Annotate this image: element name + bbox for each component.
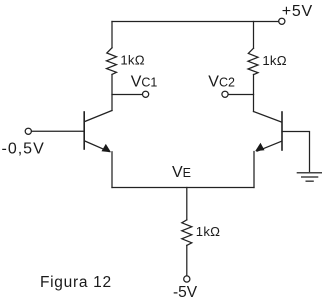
transistor Q1 base bar — [83, 112, 85, 149]
node VC1 terminal circle — [143, 91, 149, 97]
resistor R1 1k (left collector) — [107, 48, 117, 75]
svg-text:Figura 12: Figura 12 — [40, 274, 112, 291]
svg-text:VE: VE — [172, 164, 191, 181]
svg-text:+5V: +5V — [282, 3, 313, 20]
transistor Q2 collector lead — [254, 112, 282, 123]
transistor Q2 emitter lead — [257, 141, 281, 151]
wire VE node to RE — [186, 188, 188, 220]
wire right collector node — [253, 75, 255, 112]
wire VC2 tap — [228, 94, 253, 96]
wire VC1 tap — [112, 94, 142, 96]
wire Q2 emitter down to VE rail — [253, 152, 255, 188]
wire right collector drop from rail — [253, 22, 255, 49]
svg-text:-5V: -5V — [173, 284, 198, 301]
svg-text:VC1: VC1 — [131, 74, 158, 91]
wire left collector drop from rail — [111, 22, 113, 48]
node VC2 terminal circle — [222, 91, 228, 97]
transistor Q2 emitter arrowhead — [255, 143, 264, 151]
resistor R2 1k (right collector) — [248, 48, 258, 74]
wire RE to -5V terminal — [186, 245, 188, 275]
wire top rail +5V — [112, 21, 279, 23]
resistor RE 1k (emitter) — [182, 220, 192, 246]
power terminal +5V circle — [279, 18, 285, 24]
node -5V terminal circle — [184, 276, 190, 282]
transistor Q1 emitter arrowhead — [102, 144, 112, 152]
svg-text:VC2: VC2 — [208, 74, 235, 91]
transistor Q2 base bar — [281, 112, 283, 150]
svg-text:1kΩ: 1kΩ — [262, 53, 286, 68]
transistor Q1 collector lead — [85, 111, 112, 122]
svg-text:-0,5V: -0,5V — [2, 141, 45, 158]
wire left collector node — [111, 75, 113, 111]
wire input to Q1 base — [32, 130, 85, 132]
transistor Q1 emitter lead — [85, 141, 109, 152]
svg-text:1kΩ: 1kΩ — [120, 53, 144, 68]
node input terminal circle -0,5V — [25, 128, 31, 134]
svg-text:1kΩ: 1kΩ — [196, 224, 220, 239]
wire VE rail — [112, 187, 254, 189]
ground symbol — [297, 173, 322, 181]
wire Q2 base to ground — [282, 132, 310, 173]
wire Q1 emitter down to VE rail — [111, 152, 113, 188]
